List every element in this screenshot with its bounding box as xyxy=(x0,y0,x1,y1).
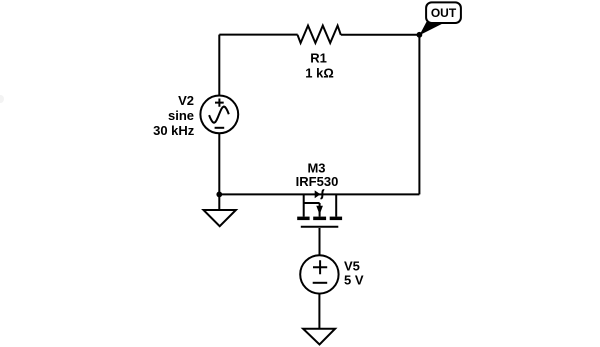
M3 source lead xyxy=(303,194,305,216)
voltage source V2 circle xyxy=(200,96,238,134)
wire: top rail left segment to R1 xyxy=(219,34,297,36)
svg-text:IRF530: IRF530 xyxy=(296,174,339,189)
wire: top rail right segment R1 to OUT node xyxy=(341,34,420,36)
svg-text:V5: V5 xyxy=(344,258,360,273)
M3 drain lead xyxy=(335,194,337,216)
V2 plus sign xyxy=(215,99,224,107)
wire: right vertical from OUT node down to drain rail xyxy=(418,35,420,195)
svg-text:OUT: OUT xyxy=(431,6,457,20)
wire: V2 minus terminal down to junction xyxy=(218,133,220,194)
resistor R1 zigzag xyxy=(298,26,341,43)
V5 plus sign xyxy=(313,260,327,274)
ground 2 symbol xyxy=(303,329,335,345)
M3 body lead xyxy=(319,203,321,217)
V2 minus sign xyxy=(215,127,225,129)
wire: V5 minus down to ground 2 xyxy=(318,294,320,328)
svg-text:30 kHz: 30 kHz xyxy=(153,123,195,138)
wire: source rail from junction to right vertical xyxy=(219,193,419,195)
wire: gate stem down to V5 xyxy=(319,228,321,255)
flag OUT pointer tail xyxy=(419,22,444,36)
ground 1 symbol xyxy=(204,210,236,226)
svg-text:1 kΩ: 1 kΩ xyxy=(305,66,334,81)
M3 channel bar right xyxy=(330,217,342,221)
V5 minus sign xyxy=(313,282,328,284)
svg-text:R1: R1 xyxy=(310,51,327,66)
voltage source V5 circle xyxy=(300,255,338,293)
wire: junction down to ground 1 xyxy=(218,194,220,210)
M3 current arrow on rail xyxy=(315,190,321,198)
svg-text:V2: V2 xyxy=(178,93,194,108)
flag OUT box xyxy=(426,2,461,23)
faint edge smudge xyxy=(0,95,4,103)
junction node dot xyxy=(216,192,222,198)
M3 body tie xyxy=(304,202,320,204)
V2 sine wave xyxy=(209,107,229,123)
svg-text:sine: sine xyxy=(168,108,194,123)
node OUT junction dot xyxy=(417,32,423,38)
M3 body arrow xyxy=(316,206,323,215)
M3 gate plate xyxy=(301,226,339,228)
M3 channel bar middle xyxy=(313,217,326,221)
svg-text:5 V: 5 V xyxy=(344,273,364,288)
M3 squiggle marker xyxy=(321,190,325,198)
wire: V2 plus terminal up to top rail xyxy=(218,35,220,96)
M3 channel bar left xyxy=(297,217,309,221)
